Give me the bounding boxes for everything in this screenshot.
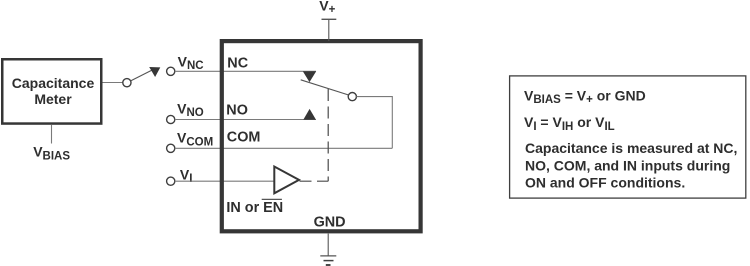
NC contact arrowhead bbox=[303, 71, 316, 82]
buffer U1 bbox=[274, 167, 299, 194]
svg-text:VI = VIH or VIL: VI = VIH or VIL bbox=[524, 114, 615, 133]
terminal circle V_COM bbox=[167, 144, 175, 152]
switch S1 pole circle bbox=[123, 79, 131, 87]
terminal circle V_NO bbox=[167, 115, 175, 123]
switch S1 blade bbox=[131, 70, 152, 80]
power rail V+ bar bbox=[322, 18, 337, 20]
device box bbox=[222, 41, 421, 231]
NO contact arrowhead bbox=[303, 109, 316, 120]
switch S1 arrowhead bbox=[149, 67, 160, 77]
terminal circle V_NC bbox=[167, 67, 175, 75]
svg-text:VNO: VNO bbox=[177, 100, 204, 119]
control dashed line horizontal bbox=[300, 180, 329, 182]
terminal circle V_I bbox=[167, 177, 175, 185]
svg-text:COM: COM bbox=[227, 129, 261, 145]
svg-text:Capacitance is measured at NC,: Capacitance is measured at NC, bbox=[525, 140, 737, 156]
COM pole circle bbox=[348, 93, 356, 101]
svg-text:IN or EN: IN or EN bbox=[226, 200, 283, 216]
wire V_NC to NC contact bbox=[175, 70, 316, 72]
svg-text:GND: GND bbox=[314, 215, 346, 231]
wire V_COM to pole loop bbox=[175, 147, 392, 149]
svg-text:V+: V+ bbox=[319, 0, 335, 16]
svg-text:VBIAS: VBIAS bbox=[33, 144, 70, 163]
wire V_NO to NO contact bbox=[175, 119, 316, 121]
ground bbox=[320, 256, 336, 265]
svg-text:VNC: VNC bbox=[178, 53, 204, 72]
pin IN or EN label bbox=[226, 199, 283, 216]
svg-text:VBIAS = V+ or GND: VBIAS = V+ or GND bbox=[524, 87, 646, 106]
wire V+ to device box bbox=[328, 19, 330, 41]
wire meter to switch S1 bbox=[103, 82, 123, 84]
svg-text:VI: VI bbox=[180, 166, 193, 185]
svg-text:Capacitance: Capacitance bbox=[12, 75, 95, 91]
control dashed line vertical bbox=[327, 89, 329, 181]
svg-text:NO: NO bbox=[226, 102, 248, 118]
wire device box to ground bbox=[327, 234, 329, 256]
switch blade NC to COM pole bbox=[301, 80, 349, 95]
wire pole to COM bbox=[356, 97, 392, 149]
capacitance meter label bbox=[12, 75, 95, 107]
svg-text:ON and OFF conditions.: ON and OFF conditions. bbox=[525, 175, 685, 191]
wire V_I to buffer U1 bbox=[175, 180, 274, 182]
wire meter to V_BIAS bbox=[51, 125, 53, 144]
svg-text:NC: NC bbox=[227, 55, 248, 71]
svg-text:NO, COM, and IN inputs during: NO, COM, and IN inputs during bbox=[525, 157, 730, 173]
svg-text:Meter: Meter bbox=[34, 91, 72, 107]
svg-text:VCOM: VCOM bbox=[177, 130, 213, 149]
capacitance meter box bbox=[2, 59, 101, 123]
note capacitance text bbox=[525, 140, 737, 191]
note box bbox=[510, 76, 746, 198]
